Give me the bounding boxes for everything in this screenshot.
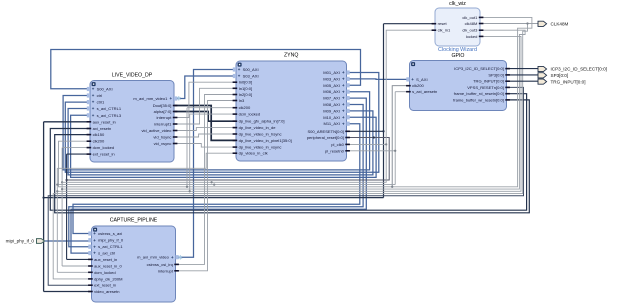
svg-text:+: + bbox=[342, 89, 345, 94]
wire net LIVE interrupt1 -> ZYNQ In1 bbox=[174, 88, 236, 124]
svg-text:clk200: clk200 bbox=[239, 105, 251, 110]
svg-text:M10_AXI: M10_AXI bbox=[323, 115, 340, 120]
svg-text:locked: locked bbox=[466, 34, 478, 39]
svg-text:In2[0:0]: In2[0:0] bbox=[239, 92, 253, 97]
svg-text:dp_live_video_in_pixel1[35:0]: dp_live_video_in_pixel1[35:0] bbox=[239, 138, 292, 143]
svg-text:dcm_locked: dcm_locked bbox=[93, 145, 115, 150]
svg-text:✱: ✱ bbox=[178, 254, 183, 261]
wire net GPIO TRG_INPUT -> port bbox=[507, 80, 539, 82]
svg-text:S03_AXI: S03_AXI bbox=[243, 74, 259, 79]
svg-text:axi_resetn: axi_resetn bbox=[93, 126, 112, 131]
svg-text:In1[0:0]: In1[0:0] bbox=[239, 86, 253, 91]
wire net LIVE vid_vsync -> ZYNQ dp_live_video_in_vsync bbox=[174, 144, 236, 148]
svg-text:+: + bbox=[342, 102, 345, 107]
svg-text:S00_AXI: S00_AXI bbox=[243, 67, 259, 72]
wire net M03_AXI -> GPIO S_AXI bbox=[347, 78, 410, 81]
svg-text:interrupt1: interrupt1 bbox=[154, 122, 172, 127]
svg-text:vid_active_video: vid_active_video bbox=[141, 128, 172, 133]
wire net LIVE interrupt -> ZYNQ In0 bbox=[174, 82, 236, 117]
block LIVE_VIDEO_DP bbox=[87, 73, 178, 163]
svg-text:✱: ✱ bbox=[176, 96, 181, 103]
svg-text:S00_ARESETN[0:0]: S00_ARESETN[0:0] bbox=[307, 129, 343, 134]
svg-text:+: + bbox=[342, 96, 345, 101]
svg-text:s_axi_CTRL3: s_axi_CTRL3 bbox=[97, 113, 122, 118]
svg-text:csirxss_csi_irq: csirxss_csi_irq bbox=[147, 262, 173, 267]
svg-text:M05_AXI: M05_AXI bbox=[323, 83, 340, 88]
wire net GPIO SP3 -> port bbox=[507, 74, 539, 76]
wire net M08_AXI -> CAPTURE_PIPLINE s_axi_CTRL1 bbox=[69, 105, 363, 247]
wire net ZYNQ pl_resetn0 -> GPIO s_axi_aresetn bbox=[56, 92, 409, 186]
svg-text:aux_reset_in: aux_reset_in bbox=[94, 257, 117, 262]
svg-text:ext_reset_in: ext_reset_in bbox=[94, 283, 116, 288]
wire net M10_AXI -> LIVE_VIDEO_DP s_axi_CTRL3 bbox=[71, 115, 377, 177]
port ICP3_I2C_ID_SELECT[0:0] bbox=[538, 66, 607, 71]
svg-text:GPIO: GPIO bbox=[452, 53, 465, 59]
wire net LIVE alpha[7:0] -> ZYNQ dp_live_gfx_alpha_in[7:0] bbox=[174, 112, 236, 122]
svg-text:+: + bbox=[238, 74, 241, 79]
svg-text:aux_reset_in_0: aux_reset_in_0 bbox=[94, 264, 122, 269]
svg-text:+: + bbox=[342, 76, 345, 81]
wire net clk_wiz locked -> ZYNQ dcm_locked / CAPTURE dcm_locked / dp_video_in_clk bbox=[56, 36, 521, 272]
svg-text:vid_hsync: vid_hsync bbox=[153, 135, 171, 140]
block CAPTURE_PIPLINE bbox=[88, 218, 179, 303]
wire net M11_AXI -> CAPTURE_PIPLINE csirxss_s_axi bbox=[73, 124, 360, 234]
svg-text:+: + bbox=[92, 113, 95, 118]
svg-text:s_axi_aresetn: s_axi_aresetn bbox=[412, 89, 437, 94]
svg-text:M08_AXI: M08_AXI bbox=[323, 102, 340, 107]
svg-text:s_axi_CTRL1: s_axi_CTRL1 bbox=[98, 244, 123, 249]
port SP3[0:0] bbox=[538, 73, 568, 78]
svg-text:peripheral_reset[0:0]: peripheral_reset[0:0] bbox=[307, 135, 344, 140]
svg-text:+: + bbox=[93, 231, 96, 236]
svg-text:S00_AXI: S00_AXI bbox=[97, 87, 113, 92]
wire net connector mark CAPTURE m_axi_mm_video bbox=[178, 254, 183, 261]
svg-text:VPSS_RESETn[0:0]: VPSS_RESETn[0:0] bbox=[467, 85, 504, 90]
svg-text:TRG_INPUT[0:0]: TRG_INPUT[0:0] bbox=[551, 79, 586, 84]
svg-text:+: + bbox=[411, 77, 414, 82]
wire net M05_AXI -> LIVE_VIDEO_DP S00_AXI (top loop) bbox=[51, 50, 361, 89]
svg-text:clk48M: clk48M bbox=[465, 21, 478, 26]
svg-text:+: + bbox=[93, 238, 96, 243]
svg-text:ctrl: ctrl bbox=[97, 93, 102, 98]
svg-text:SP3[0:0]: SP3[0:0] bbox=[488, 72, 504, 77]
svg-text:interrupt: interrupt bbox=[157, 115, 173, 120]
svg-text:+: + bbox=[342, 115, 345, 120]
svg-text:dp_live_video_in_hsync: dp_live_video_in_hsync bbox=[239, 132, 282, 137]
svg-text:+: + bbox=[342, 70, 345, 75]
svg-text:+: + bbox=[92, 100, 95, 105]
svg-text:clk_out3: clk_out3 bbox=[462, 28, 478, 33]
svg-text:m_axi_mm_video: m_axi_mm_video bbox=[137, 255, 169, 260]
wire net connector mark LIVE m_axi_mm_video1 bbox=[176, 96, 181, 103]
wire net clk_wiz clk_out3 -> LIVE dcm_locked / CAPTURE aux_reset_in_0 bbox=[61, 30, 525, 266]
svg-text:clk_out1: clk_out1 bbox=[462, 15, 478, 20]
wire net CAPTURE csirxss_csi_irq -> ZYNQ In2 bbox=[176, 95, 237, 265]
svg-text:Dout[35:0]: Dout[35:0] bbox=[153, 103, 172, 108]
block clk_wiz bbox=[432, 1, 484, 53]
svg-text:aux_reset_in: aux_reset_in bbox=[93, 119, 116, 124]
svg-text:dphy_clk_200M: dphy_clk_200M bbox=[94, 276, 123, 281]
svg-text:SP3[0:0]: SP3[0:0] bbox=[551, 73, 569, 78]
wire net clk_wiz clk48M -> CLK48M port / CAPTURE dphy_clk_200M bbox=[53, 22, 538, 279]
wire net CAPTURE_PIPLINE m_axi_mm_video -> ZYNQ S00_AXI bbox=[176, 70, 237, 258]
svg-text:In3: In3 bbox=[239, 98, 245, 103]
wire net GPIO frame_buffer_rd_resetn -> LIVE axi_resetn bbox=[50, 94, 526, 211]
svg-text:+: + bbox=[93, 251, 96, 256]
svg-text:m_axi_mm_video1: m_axi_mm_video1 bbox=[133, 96, 168, 101]
wire net LIVE_VIDEO_DP m_axi_mm_video1 -> ZYNQ S03_AXI bbox=[174, 76, 236, 99]
wire net GPIO VPSS_RESETn -> CAPTURE ext_reset_in bbox=[48, 87, 523, 285]
wire net peripheral_reset -> LIVE ext_reset_in / CAPTURE aux_reset_in bbox=[65, 136, 389, 259]
svg-text:interrupt: interrupt bbox=[158, 268, 174, 273]
svg-text:clk150: clk150 bbox=[93, 132, 105, 137]
svg-text:mipi_phy_if_0: mipi_phy_if_0 bbox=[6, 239, 35, 244]
svg-text:pl_resetn0: pl_resetn0 bbox=[325, 148, 345, 153]
svg-text:TRG_INPUT[0:0]: TRG_INPUT[0:0] bbox=[473, 79, 504, 84]
svg-text:dcm_locked: dcm_locked bbox=[94, 270, 116, 275]
svg-text:+: + bbox=[170, 96, 173, 101]
svg-text:In0[0:0]: In0[0:0] bbox=[239, 80, 253, 85]
svg-text:M07_AXI: M07_AXI bbox=[323, 96, 340, 101]
svg-text:Clocking Wizard: Clocking Wizard bbox=[438, 47, 477, 53]
svg-text:M09_AXI: M09_AXI bbox=[323, 108, 340, 113]
svg-text:+: + bbox=[238, 67, 241, 72]
svg-text:pl_clk0: pl_clk0 bbox=[331, 142, 344, 147]
wire net LIVE vid_active_video -> ZYNQ dp_live_video_in_de bbox=[174, 128, 236, 131]
wire net CAPTURE interrupt -> ZYNQ In3 bbox=[176, 101, 237, 271]
wire net M01_AXI -> LIVE_VIDEO_DP ctrl1 bbox=[65, 73, 379, 173]
port TRG_INPUT[0:0] bbox=[538, 79, 585, 84]
svg-text:dp_live_video_in_vsync: dp_live_video_in_vsync bbox=[239, 145, 282, 150]
svg-text:clk200: clk200 bbox=[93, 139, 105, 144]
svg-text:frame_buffer_rd_resetn[0:0]: frame_buffer_rd_resetn[0:0] bbox=[454, 91, 504, 96]
svg-text:dp_live_video_in_de: dp_live_video_in_de bbox=[239, 125, 277, 130]
svg-text:S_AXI: S_AXI bbox=[416, 77, 427, 82]
wire net LIVE vid_hsync -> ZYNQ dp_live_video_in_hsync bbox=[174, 134, 236, 137]
svg-text:reset: reset bbox=[438, 21, 448, 26]
svg-text:clk_in1: clk_in1 bbox=[438, 28, 451, 33]
svg-text:+: + bbox=[92, 93, 95, 98]
block ZYNQ bbox=[233, 53, 350, 162]
svg-text:M11_AXI: M11_AXI bbox=[324, 121, 340, 126]
svg-text:dcm_locked: dcm_locked bbox=[239, 112, 261, 117]
svg-text:CAPTURE_PIPLINE: CAPTURE_PIPLINE bbox=[110, 218, 158, 224]
wire net ZYNQ pl_clk0 -> clk_wiz clk_in1 bbox=[62, 30, 435, 182]
block GPIO bbox=[406, 53, 510, 111]
wire net S00_ARESETN -> clk_wiz reset / LIVE aux_reset_in / CAPTURE video_aresetn bbox=[42, 24, 435, 292]
svg-text:+: + bbox=[342, 83, 345, 88]
svg-text:s_axi_ctrl: s_axi_ctrl bbox=[98, 251, 115, 256]
svg-text:ext_reset_in: ext_reset_in bbox=[93, 152, 115, 157]
port CLK48M bbox=[538, 21, 569, 26]
svg-text:frame_buffer_wr_resetn[0:0]: frame_buffer_wr_resetn[0:0] bbox=[453, 97, 504, 102]
svg-text:M01_AXI: M01_AXI bbox=[323, 70, 340, 75]
svg-text:+: + bbox=[342, 108, 345, 113]
wire net LIVE Dout[35:0] -> ZYNQ dp_live_video_in_pixel1[35:0] bbox=[174, 106, 236, 141]
wire net M07_AXI -> CAPTURE_PIPLINE s_axi_ctrl bbox=[71, 98, 366, 253]
svg-text:ZYNQ: ZYNQ bbox=[284, 53, 298, 59]
svg-text:+: + bbox=[342, 121, 345, 126]
svg-text:ICP3_I2C_ID_SELECT[0:0]: ICP3_I2C_ID_SELECT[0:0] bbox=[454, 66, 504, 71]
svg-text:dp_live_gfx_alpha_in[7:0]: dp_live_gfx_alpha_in[7:0] bbox=[239, 119, 285, 124]
svg-text:alpha[7:0]: alpha[7:0] bbox=[154, 109, 172, 114]
svg-text:csirxss_s_axi: csirxss_s_axi bbox=[98, 231, 122, 236]
svg-text:clk200: clk200 bbox=[412, 83, 424, 88]
svg-text:M03_AXI: M03_AXI bbox=[323, 76, 340, 81]
svg-text:ctrl1: ctrl1 bbox=[97, 100, 105, 105]
wire net GPIO ICP3_I2C_ID_SELECT -> port bbox=[507, 68, 539, 70]
svg-text:M06_AXI: M06_AXI bbox=[323, 89, 340, 94]
port mipi_phy_if_0 bbox=[6, 239, 45, 244]
svg-text:ICP3_I2C_ID_SELECT[0:0]: ICP3_I2C_ID_SELECT[0:0] bbox=[551, 67, 607, 72]
svg-text:mipi_phy_if_0: mipi_phy_if_0 bbox=[98, 238, 124, 243]
wire net M06_AXI -> LIVE_VIDEO_DP ctrl bbox=[63, 92, 370, 170]
svg-text:LIVE_VIDEO_DP: LIVE_VIDEO_DP bbox=[112, 73, 153, 79]
svg-text:CLK48M: CLK48M bbox=[551, 22, 569, 27]
svg-text:+: + bbox=[92, 87, 95, 92]
svg-text:video_aresetn: video_aresetn bbox=[94, 289, 119, 294]
wire net mipi_phy_if_0 port wire bbox=[44, 240, 92, 242]
svg-text:dp_video_in_clk: dp_video_in_clk bbox=[239, 151, 269, 156]
wire net clk_wiz clk_out1 -> LIVE clk200 / ZYNQ clk200 / GPIO clk200 bbox=[59, 17, 532, 188]
wire net GPIO frame_buffer_wr_resetn -> LIVE clk150 bbox=[55, 100, 530, 213]
svg-text:s_axi_CTRL1: s_axi_CTRL1 bbox=[97, 106, 122, 111]
svg-text:+: + bbox=[93, 244, 96, 249]
svg-text:vid_vsync: vid_vsync bbox=[154, 141, 172, 146]
svg-text:clk_wiz: clk_wiz bbox=[449, 1, 466, 7]
wire net M09_AXI -> LIVE_VIDEO_DP s_axi_CTRL1 bbox=[68, 109, 373, 175]
svg-text:+: + bbox=[92, 106, 95, 111]
svg-text:+: + bbox=[171, 255, 174, 260]
